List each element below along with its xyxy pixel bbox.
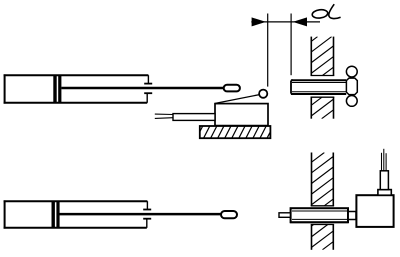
cable wire 3: [385, 153, 387, 171]
lever arm of switch S1: [215, 95, 259, 104]
sensor sleeve through wall W2: [290, 208, 348, 222]
rod tip roller (capsule) of C1: [224, 85, 240, 92]
cable gland flange: [378, 190, 391, 196]
cable wire 2: [383, 149, 385, 171]
knob K1 top ball: [346, 66, 357, 77]
sensor body box: [356, 195, 393, 227]
dimension extension line (rod side): [290, 14, 292, 76]
wire 2 to switch S1: [155, 117, 173, 120]
piston of C1: [53, 76, 56, 103]
dimension line: [251, 21, 320, 23]
cable gland stem: [380, 171, 388, 190]
rod tip roller (capsule) of C2: [221, 211, 237, 218]
wire 1 to switch S1: [155, 113, 173, 115]
label alpha (loop): [312, 9, 328, 19]
wall W1 lower section (hatched): [311, 97, 335, 119]
knob K1 hex barrel: [346, 78, 357, 95]
dimension extension line (roller side): [267, 14, 269, 87]
cylinder C2 body: [4, 200, 152, 228]
sensor tip pin: [279, 213, 290, 218]
label alpha (tail stroke): [329, 4, 341, 18]
switch S1 plunger/stem: [173, 114, 215, 121]
piston rod of C2: [59, 213, 221, 216]
neck between sleeve and sensor body: [348, 212, 356, 220]
limit switch S1 body: [215, 104, 268, 126]
piston rod of C1: [61, 87, 223, 90]
piston of C2: [52, 202, 55, 228]
lever roller of switch S1: [259, 90, 267, 98]
stop rod through wall W1: [291, 80, 347, 95]
cable wire 1: [381, 153, 383, 171]
right dimension arrowhead: [293, 17, 307, 26]
cylinder C1 body: [4, 74, 153, 103]
knob K1 bottom ball: [346, 96, 357, 107]
wall W1 upper section (hatched): [311, 37, 335, 76]
machine base (hatched) under switch S1: [200, 126, 271, 138]
wall W2 upper section (hatched): [311, 153, 334, 206]
wall W2 lower section (hatched): [311, 225, 334, 250]
left dimension arrowhead: [252, 17, 266, 26]
